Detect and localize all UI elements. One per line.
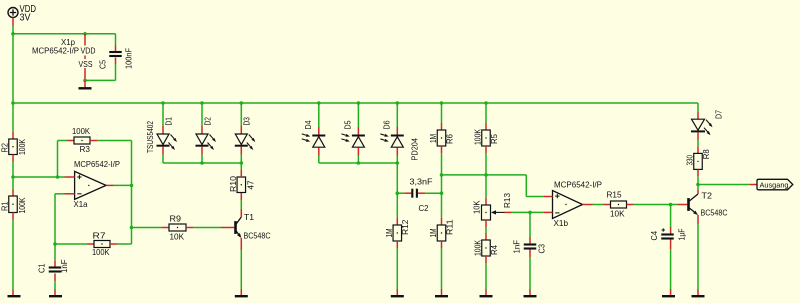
svg-text:R5: R5 <box>489 134 499 144</box>
svg-text:D3: D3 <box>242 117 252 126</box>
svg-text:VDD: VDD <box>81 46 96 56</box>
svg-text:MCP6542-I/P: MCP6542-I/P <box>74 159 120 169</box>
svg-text:R15: R15 <box>607 189 622 199</box>
svg-text:MCP6542-I/P: MCP6542-I/P <box>554 180 602 190</box>
svg-text:C1: C1 <box>37 263 47 273</box>
svg-text:10K: 10K <box>170 232 185 242</box>
svg-text:1nF: 1nF <box>511 240 521 254</box>
svg-text:D1: D1 <box>163 117 173 126</box>
svg-text:R12: R12 <box>400 219 410 235</box>
svg-text:T2: T2 <box>702 190 713 200</box>
svg-text:D4: D4 <box>303 120 313 129</box>
svg-text:R4: R4 <box>489 245 499 255</box>
svg-text:C4: C4 <box>649 231 659 241</box>
svg-text:C5: C5 <box>97 60 107 69</box>
svg-text:T1: T1 <box>244 212 254 222</box>
svg-text:100K: 100K <box>17 139 27 155</box>
svg-text:VSS: VSS <box>79 59 93 69</box>
svg-text:1M: 1M <box>428 134 438 143</box>
svg-text:D6: D6 <box>382 120 392 129</box>
svg-text:100K: 100K <box>92 247 110 257</box>
svg-text:R7: R7 <box>93 231 106 241</box>
svg-text:100K: 100K <box>17 197 27 213</box>
svg-text:C2: C2 <box>419 203 429 213</box>
svg-text:R3: R3 <box>80 144 91 154</box>
svg-text:D2: D2 <box>202 117 212 126</box>
svg-text:R8: R8 <box>701 149 711 159</box>
svg-text:R6: R6 <box>444 134 454 144</box>
svg-text:3V: 3V <box>20 13 31 24</box>
svg-text:100nF: 100nF <box>124 48 134 69</box>
svg-text:C3: C3 <box>536 244 546 254</box>
svg-text:330: 330 <box>685 155 695 166</box>
svg-text:R13: R13 <box>502 193 512 208</box>
svg-text:R10: R10 <box>228 176 238 192</box>
svg-text:D7: D7 <box>714 110 724 119</box>
svg-text:1M: 1M <box>384 228 394 237</box>
svg-text:1M: 1M <box>428 228 438 237</box>
svg-text:BC548C: BC548C <box>244 231 271 241</box>
svg-text:1nF: 1nF <box>59 260 69 274</box>
svg-text:X1a: X1a <box>74 199 88 209</box>
svg-text:47: 47 <box>245 180 255 189</box>
svg-text:R1: R1 <box>0 201 10 211</box>
svg-text:R11: R11 <box>444 219 454 235</box>
svg-text:100K: 100K <box>72 126 90 136</box>
svg-text:100K: 100K <box>473 129 483 145</box>
svg-text:3,3nF: 3,3nF <box>410 177 433 187</box>
svg-text:D5: D5 <box>343 120 353 129</box>
svg-text:1µF: 1µF <box>677 229 687 241</box>
svg-text:Ausgang: Ausgang <box>760 181 789 190</box>
svg-text:10K: 10K <box>471 200 481 214</box>
svg-text:BC548C: BC548C <box>701 208 728 218</box>
svg-text:10K: 10K <box>610 209 625 219</box>
svg-text:TSUS5402: TSUS5402 <box>145 121 155 153</box>
svg-text:MCP6542-I/P: MCP6542-I/P <box>32 46 79 56</box>
svg-text:R9: R9 <box>170 214 182 224</box>
svg-text:R2: R2 <box>0 143 10 153</box>
svg-text:PD204: PD204 <box>409 138 419 161</box>
svg-text:X1b: X1b <box>554 218 569 228</box>
svg-text:100K: 100K <box>473 240 483 256</box>
